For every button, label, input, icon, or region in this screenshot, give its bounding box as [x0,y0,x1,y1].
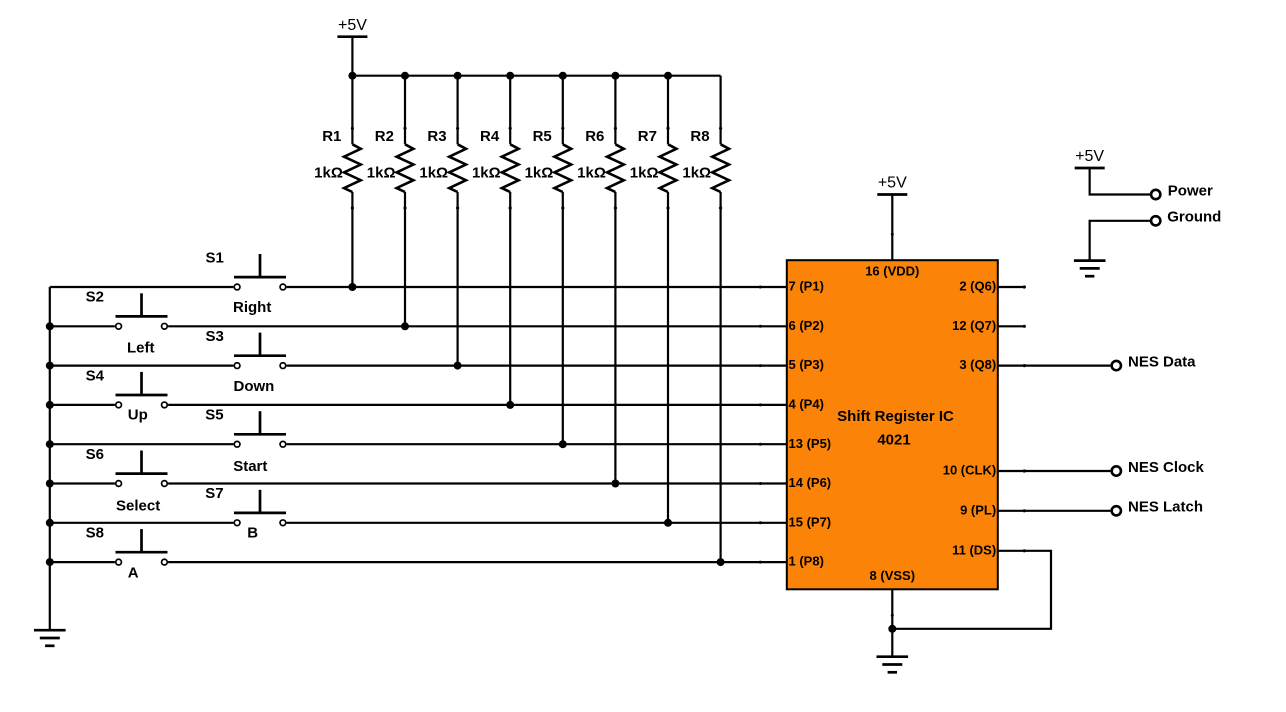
svg-text:S7: S7 [205,485,223,502]
svg-text:S8: S8 [86,525,104,542]
svg-text:1kΩ: 1kΩ [630,164,659,181]
switch S2 (Left) [86,289,168,357]
wire: +5V to IC pin 16 [891,195,894,261]
resistor R8 1k&#937; [682,76,729,562]
junction: left bus / row 6 [46,480,54,488]
wire: row S3 left segment [50,365,234,367]
svg-text:7 (P1): 7 (P1) [789,279,824,294]
svg-text:A: A [128,565,139,582]
svg-text:R2: R2 [375,128,394,145]
junction: R6 / row 6 [611,480,619,488]
node NES Data [1112,354,1197,371]
svg-text:Ground: Ground [1167,209,1221,226]
svg-text:Up: Up [128,406,148,423]
svg-text:S4: S4 [86,367,105,384]
svg-text:1kΩ: 1kΩ [472,164,501,181]
resistor R5 1k&#937; [525,76,572,445]
svg-text:Select: Select [116,498,160,515]
wire: row S1 left segment [50,286,234,288]
resistor R3 1k&#937; [419,76,466,366]
resistor R7 1k&#937; [630,76,677,523]
node Power [1151,182,1213,199]
svg-text:Left: Left [127,340,155,357]
wire: top resistor bus [352,75,720,77]
node Ground [1151,209,1221,226]
junction: bus / R1 [348,72,356,80]
svg-text:R6: R6 [585,128,604,145]
wire: NES Latch [998,509,1111,512]
wire: row S4 left segment [50,404,115,406]
svg-text:15 (P7): 15 (P7) [789,514,832,529]
switch S1 (Right) [206,249,287,316]
svg-text:R3: R3 [427,128,446,145]
+5V rail (resistor bank supply) [337,17,367,37]
wire: NES Data [998,364,1111,367]
svg-text:13 (P5): 13 (P5) [789,436,832,451]
junction: left bus / row 7 [46,519,54,527]
svg-text:12 (Q7): 12 (Q7) [952,318,996,333]
svg-text:1kΩ: 1kΩ [682,164,711,181]
wire: row S2 left segment [50,325,115,327]
wire: +5V to Power pin [1090,168,1150,195]
junction: bus / R5 [559,72,567,80]
switch S8 (A) [86,525,168,582]
junction: left bus / row 5 [46,440,54,448]
svg-text:R4: R4 [480,128,500,145]
switch S7 (B) [205,485,286,541]
junction: R8 / row 8 [717,558,725,566]
node NES Clock [1112,459,1205,476]
ground (IC VSS) [877,657,909,673]
svg-text:8 (VSS): 8 (VSS) [870,568,916,583]
ground (left bus) [34,630,66,646]
junction: bus / R4 [506,72,514,80]
svg-text:1kΩ: 1kΩ [367,164,396,181]
ground (header) [1074,261,1106,277]
svg-text:NES Latch: NES Latch [1128,499,1203,516]
wire: pin 12 (Q7) stub [998,325,1026,328]
svg-text:R7: R7 [638,128,657,145]
svg-text:3 (Q8): 3 (Q8) [959,357,996,372]
+5V rail (IC VDD) [877,175,907,195]
svg-text:NES Data: NES Data [1128,354,1196,371]
switch S3 (Down) [206,328,287,395]
svg-text:S2: S2 [86,289,104,306]
node NES Latch [1112,499,1203,516]
svg-text:S1: S1 [206,249,224,266]
svg-text:4 (P4): 4 (P4) [789,397,824,412]
wire: +5V to bus [351,37,353,76]
svg-text:NES Clock: NES Clock [1128,459,1205,476]
wire: left ground bus [49,287,51,630]
wire: pin 11 (DS) loop to VSS [892,549,1051,629]
svg-text:Right: Right [233,299,271,316]
svg-text:R8: R8 [690,128,709,145]
wire: Ground pin to ground [1090,221,1150,261]
wire: row S5 left segment [50,443,234,445]
junction: R2 / row 2 [401,322,409,330]
junction: left bus / row 3 [46,362,54,370]
wire: row S3 to IC [287,365,787,367]
svg-text:1kΩ: 1kΩ [419,164,448,181]
svg-text:R1: R1 [322,128,341,145]
junction: left bus / row 4 [46,401,54,409]
svg-text:Power: Power [1168,182,1213,199]
junction: left bus / row 8 [46,558,54,566]
svg-text:1kΩ: 1kΩ [314,164,343,181]
wire: pin 8 (VSS) to ground [891,589,894,656]
op-amp U1: shift register IC 4021 body [787,260,998,589]
svg-text:4021: 4021 [877,432,910,449]
svg-text:S3: S3 [206,328,224,345]
junction: R3 / row 3 [454,362,462,370]
resistor R4 1k&#937; [472,76,519,405]
wire: NES Clock [998,469,1111,472]
junction: R4 / row 4 [506,401,514,409]
junction: left bus / row 2 [46,322,54,330]
junction: R7 / row 7 [664,519,672,527]
switch S4 (Up) [86,367,168,423]
svg-text:2 (Q6): 2 (Q6) [959,279,996,294]
junction: bus / R2 [401,72,409,80]
+5V rail (header) [1075,148,1105,168]
svg-text:5 (P3): 5 (P3) [789,357,824,372]
junction: R1 / row 1 [348,283,356,291]
wire: row S6 to IC [168,482,787,484]
svg-text:11 (DS): 11 (DS) [952,542,996,557]
resistor R6 1k&#937; [577,76,624,484]
svg-text:+5V: +5V [878,175,907,192]
junction: VSS / DS loop [888,625,896,633]
resistor R2 1k&#937; [367,76,414,327]
svg-text:10 (CLK): 10 (CLK) [943,463,996,478]
svg-text:16 (VDD): 16 (VDD) [865,263,919,278]
wire: row S8 to IC [168,561,787,563]
wire: row S2 to IC [168,325,787,327]
svg-text:Start: Start [233,458,267,475]
svg-text:6 (P2): 6 (P2) [789,318,824,333]
svg-text:14 (P6): 14 (P6) [789,475,832,490]
resistor R1 1k&#937; [314,76,361,287]
wire: pin 2 (Q6) stub [998,285,1026,288]
svg-text:1 (P8): 1 (P8) [789,554,824,569]
junction: bus / R7 [664,72,672,80]
wire: row S6 left segment [50,482,115,484]
junction: R5 / row 5 [559,440,567,448]
wire: row S7 to IC [287,522,787,524]
svg-text:B: B [247,525,258,542]
svg-text:1kΩ: 1kΩ [577,164,606,181]
svg-text:Down: Down [234,378,275,395]
junction: bus / R6 [611,72,619,80]
svg-text:R5: R5 [533,128,552,145]
svg-text:1kΩ: 1kΩ [525,164,554,181]
svg-text:+5V: +5V [338,17,367,34]
wire: row S1 to IC [287,286,787,288]
svg-text:Shift Register IC: Shift Register IC [837,408,954,425]
wire: row S7 left segment [50,522,234,524]
svg-text:S6: S6 [86,446,104,463]
junction: bus / R3 [454,72,462,80]
wire: row S5 to IC [287,443,787,445]
wire: row S4 to IC [168,404,787,406]
switch S5 (Start) [205,407,286,475]
svg-text:S5: S5 [205,407,223,424]
switch S6 (Select) [86,446,168,515]
wire: row S8 left segment [50,561,115,563]
svg-text:+5V: +5V [1075,148,1104,165]
svg-text:9 (PL): 9 (PL) [960,502,996,517]
